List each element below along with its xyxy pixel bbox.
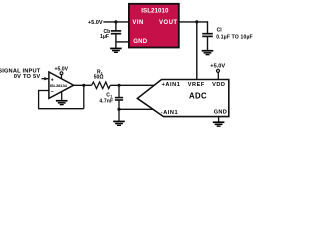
label C1 — [106, 92, 112, 98]
svg-text:–: – — [51, 89, 54, 95]
wire +5V to VIN — [103, 21, 129, 23]
svg-text:-AIN1: -AIN1 — [161, 110, 178, 116]
svg-text:+AIN1: +AIN1 — [162, 82, 181, 88]
ground (below CI) — [202, 50, 214, 55]
wire VDD stem — [217, 72, 219, 79]
svg-text:ISL28134: ISL28134 — [50, 83, 68, 88]
ADC VDD terminal circle — [217, 69, 220, 72]
node SIGNAL INPUT label — [0, 68, 41, 79]
svg-text:VDD: VDD — [212, 82, 225, 88]
ground (ADC) — [213, 121, 225, 126]
ground (op-amp) — [56, 100, 68, 105]
wire Cb upper stem — [115, 22, 117, 31]
wire CI lower stem — [207, 37, 209, 51]
wire C1 upper stem — [118, 85, 120, 97]
label CI — [217, 27, 223, 33]
svg-text:ADC: ADC — [189, 92, 207, 101]
wire GND pin of U1 to Cb stem — [116, 41, 129, 43]
svg-text:CI: CI — [217, 27, 223, 33]
capacitor Cb — [111, 31, 121, 34]
value 50 ohm — [94, 74, 104, 80]
label Cb — [104, 29, 111, 35]
svg-text:0V TO 5V: 0V TO 5V — [14, 74, 41, 80]
wire ADC GND stem — [218, 117, 220, 122]
ground (below Cb) — [110, 48, 122, 53]
capacitor C1 — [115, 98, 123, 100]
label R1 — [97, 69, 103, 75]
junction dot at VREF tap — [195, 20, 198, 23]
value 4.7nF — [99, 98, 113, 104]
svg-text:50Ω: 50Ω — [94, 74, 104, 80]
svg-text:+5.0V: +5.0V — [88, 20, 103, 26]
wire signal input with arrow — [42, 77, 49, 80]
node +5V (top-left) label — [88, 20, 103, 26]
wire Cb lower stem — [115, 34, 117, 48]
wire feedback right vertical — [83, 85, 85, 108]
wire to -AIN1 — [119, 108, 154, 110]
svg-text:0.1µF TO 10µF: 0.1µF TO 10µF — [216, 34, 253, 40]
svg-text:GND: GND — [133, 39, 147, 45]
wire supply stem — [61, 75, 63, 80]
ADC block — [137, 80, 228, 117]
node +5.0V (op-amp supply) label — [54, 66, 68, 72]
wire VREF vertical — [196, 22, 198, 80]
wire CI upper stem — [207, 21, 209, 33]
svg-text:ISL21010: ISL21010 — [141, 8, 169, 15]
svg-text:1µF: 1µF — [100, 34, 109, 40]
junction dot at Cb tap — [114, 20, 117, 23]
wire op-amp output to R1 — [73, 84, 92, 86]
svg-text:+5.0V: +5.0V — [210, 64, 225, 70]
svg-text:VOUT: VOUT — [159, 20, 177, 26]
value 0.1uF TO 10uF — [216, 34, 253, 40]
capacitor CI — [202, 34, 213, 37]
ground (below C1) — [113, 121, 125, 126]
op-amp U2 ISL28134 — [49, 72, 74, 98]
resistor R1 — [92, 82, 111, 89]
junction dot at -AIN1 tap — [117, 108, 120, 111]
svg-text:GND: GND — [214, 109, 227, 115]
wire R1 to +AIN1 — [110, 84, 154, 86]
junction dot at op-amp output — [82, 84, 85, 87]
svg-text:VREF: VREF — [188, 82, 205, 88]
wire C1 lower stem — [118, 100, 120, 121]
svg-text:VIN: VIN — [132, 20, 143, 26]
wire op-amp ground stem — [61, 92, 63, 100]
voltage reference U1 ISL21010 — [129, 4, 179, 48]
svg-text:4.7nF: 4.7nF — [99, 98, 113, 104]
value 1uF — [100, 34, 109, 40]
wire feedback left vertical — [38, 90, 40, 109]
junction dot at C1 tap — [117, 84, 120, 87]
wire VOUT to CI — [179, 21, 208, 23]
op-amp supply terminal circle — [60, 72, 63, 75]
node +5.0V (ADC VDD) label — [210, 64, 225, 70]
wire feedback: inverting input — [39, 90, 49, 92]
wire feedback bottom horizontal — [38, 108, 84, 110]
